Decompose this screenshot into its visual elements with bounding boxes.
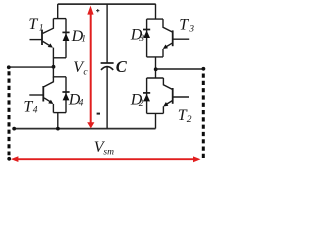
- wire T3 emitter: [165, 43, 173, 48]
- wire right AC terminal wire: [156, 68, 204, 70]
- svg-text:2: 2: [139, 99, 144, 109]
- diode D3 cathode bar: [143, 29, 150, 31]
- capacitor C flat plate: [101, 62, 114, 64]
- svg-text:T: T: [179, 17, 189, 34]
- wire right leg bottom stem: [155, 113, 157, 128]
- svg-text:sm: sm: [103, 147, 114, 157]
- wire T3 emitter arrowhead: [163, 45, 168, 50]
- diode D4 cathode bar: [62, 91, 69, 93]
- wire T1 emitter: [43, 41, 51, 46]
- svg-text:T: T: [28, 16, 38, 33]
- transistor T2 bar: [172, 88, 174, 104]
- wire upper-right loop top bar: [147, 18, 163, 20]
- wire T1 emitter arrowhead: [48, 43, 53, 47]
- wire T2 collector branch: [163, 78, 173, 90]
- wire T2 gate lead: [173, 96, 189, 98]
- svg-text:4: 4: [33, 106, 38, 116]
- minus sign for Vc: [97, 113, 100, 115]
- wire top rail: [58, 3, 156, 5]
- node left leg midpoint junction: [52, 65, 56, 69]
- diode D2 branch wire: [146, 78, 148, 113]
- Vsm red dimension line: [17, 158, 195, 160]
- diode D4 triangle: [63, 93, 70, 101]
- svg-text:2: 2: [187, 115, 192, 125]
- wire lower-right loop bottom bar: [147, 112, 164, 114]
- Vsm left arrowhead: [11, 156, 19, 162]
- svg-text:1: 1: [81, 35, 86, 45]
- wire lower-left loop top bar: [53, 67, 66, 77]
- diode D4 branch wire: [65, 77, 67, 113]
- wire lower-right loop top bar: [147, 77, 164, 79]
- transistor T3 bar: [172, 30, 174, 46]
- wire T3 emitter to bottom bar: [162, 49, 164, 57]
- wire T1 collector branch: [43, 19, 54, 34]
- wire T4 emitter to bottom bar: [52, 104, 54, 113]
- svg-text:c: c: [83, 67, 88, 77]
- transistor T1 bar: [41, 30, 43, 45]
- wire T4 emitter arrowhead: [48, 100, 53, 104]
- Vc red top arrowhead: [87, 6, 93, 15]
- wire T1 emitter to bottom bar: [52, 48, 54, 67]
- diode D1 branch wire: [65, 19, 67, 58]
- node left terminal dot: [7, 65, 11, 69]
- Vsm right arrowhead: [193, 156, 201, 162]
- diode D1 cathode bar: [62, 31, 69, 33]
- wire T3 gate lead: [173, 38, 190, 40]
- svg-text:3: 3: [188, 25, 194, 35]
- svg-text:3: 3: [138, 34, 144, 44]
- node bottom-rail left terminal dot: [12, 127, 16, 131]
- wire right leg top stem: [155, 4, 157, 19]
- diode D2 cathode bar: [143, 92, 150, 94]
- node left bottom terminal dot: [7, 157, 11, 161]
- node bottom stem junction dot: [56, 127, 60, 131]
- wire T2 emitter to bottom bar: [162, 106, 164, 113]
- wire left dashed continuation line: [8, 71, 11, 155]
- wire upper-left loop bottom bar: [53, 57, 66, 59]
- diode D2 triangle: [143, 94, 150, 102]
- wire bottom rail: [14, 128, 156, 130]
- diode D3 branch wire: [146, 19, 148, 57]
- wire T1 gate lead: [30, 39, 43, 41]
- svg-text:1: 1: [39, 23, 44, 33]
- capacitor C curved plate: [101, 67, 113, 70]
- wire right leg mid stem: [155, 57, 157, 78]
- wire T4 emitter: [44, 98, 51, 102]
- wire T2 emitter arrowhead: [163, 102, 168, 107]
- Vc red arrow line: [90, 13, 92, 123]
- capacitor C bottom lead: [106, 67, 108, 129]
- wire T4 collector branch: [44, 77, 54, 87]
- Vc red bottom arrowhead: [87, 122, 94, 128]
- capacitor C top lead: [106, 4, 108, 63]
- wire T2 emitter: [166, 100, 173, 105]
- wire lower-left loop bottom bar: [53, 112, 66, 114]
- wire T4 gate lead: [29, 94, 43, 96]
- diode D1 triangle: [63, 33, 70, 41]
- plus sign for Vc: [96, 9, 99, 12]
- diode D3 triangle: [143, 30, 150, 38]
- wire left AC terminal wire: [9, 66, 54, 68]
- wire left leg top stem: [57, 4, 59, 19]
- wire right dashed continuation line: [202, 74, 205, 159]
- wire upper-left loop top bar: [53, 18, 66, 20]
- node right leg midpoint junction: [154, 67, 158, 71]
- svg-text:4: 4: [79, 99, 84, 109]
- wire upper-right loop bottom bar: [147, 56, 163, 58]
- svg-text:C: C: [116, 57, 128, 76]
- node right terminal dot: [202, 67, 206, 71]
- wire left leg bottom stem: [57, 113, 59, 129]
- wire T3 collector branch: [163, 19, 173, 32]
- transistor T4 bar: [42, 86, 44, 102]
